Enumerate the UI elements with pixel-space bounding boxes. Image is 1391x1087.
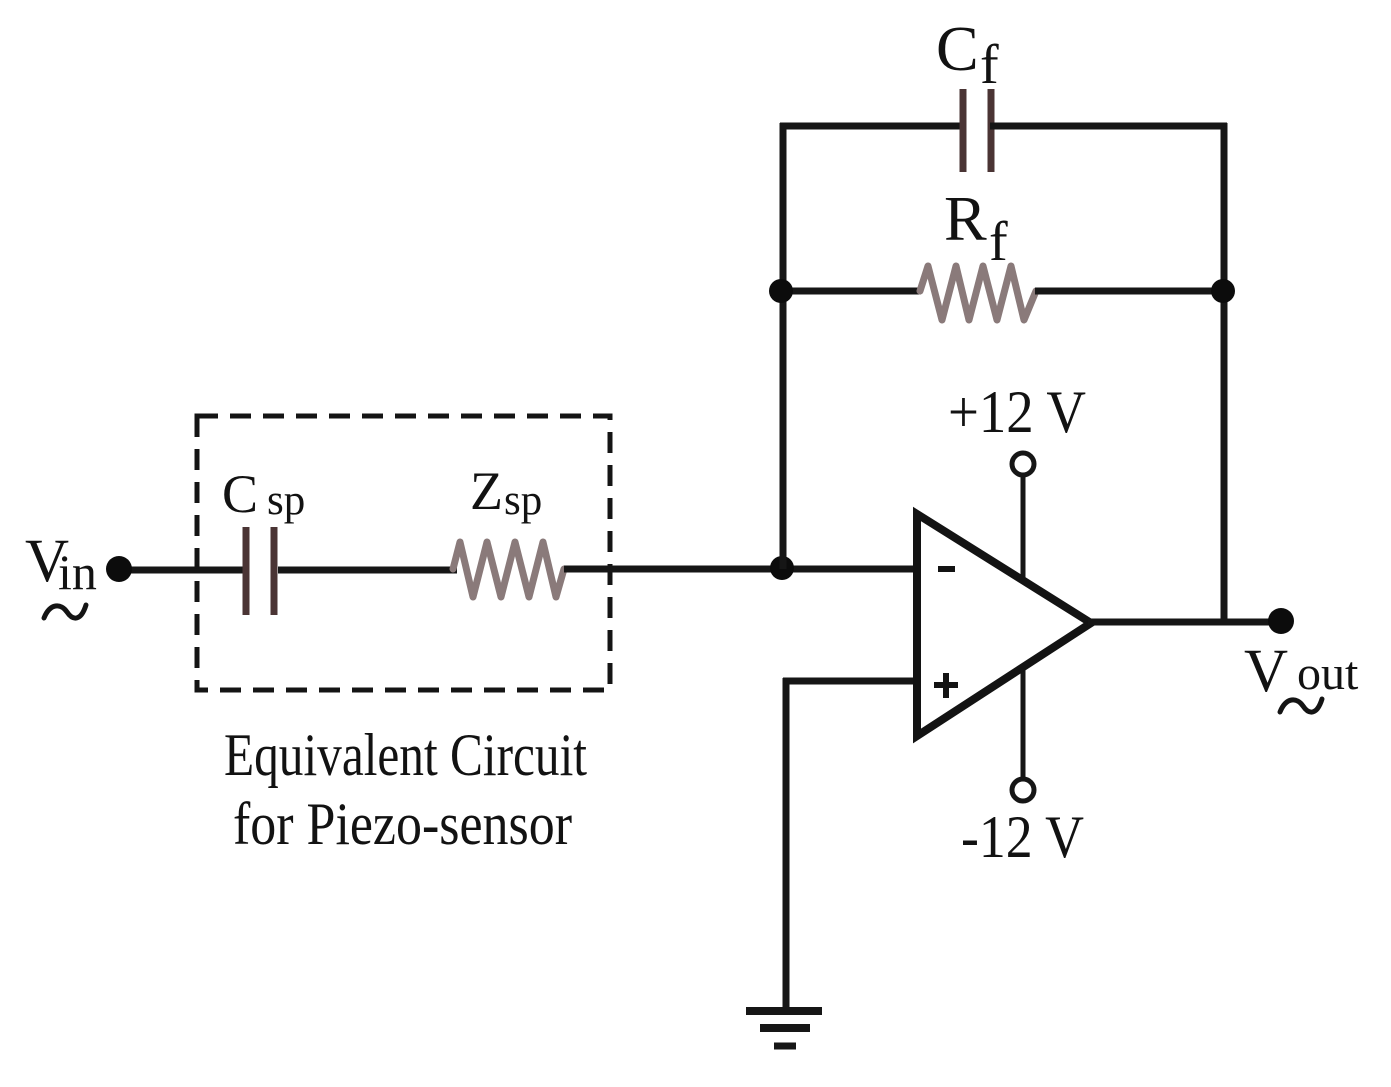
wire Rf row right segment [1035, 288, 1224, 295]
wire Rf row left segment [781, 288, 921, 295]
wire non-inverting input horizontal [783, 678, 920, 685]
power -12V terminal circle [1012, 779, 1034, 801]
svg-text:+12 V: +12 V [948, 379, 1086, 445]
svg-text:sp: sp [504, 477, 542, 524]
power pin -12V line [1021, 660, 1026, 778]
svg-text:V: V [1244, 638, 1288, 705]
node feedback left junction [769, 279, 793, 303]
label Csp [222, 464, 305, 524]
wire left feedback rail [780, 123, 787, 569]
label Cf [936, 13, 999, 96]
svg-text:C: C [936, 13, 979, 84]
resistor Rf [920, 266, 1036, 320]
wire from Zsp to inverting input of op-amp [564, 566, 920, 573]
resistor Zsp [453, 542, 564, 597]
wire between Csp and Zsp [278, 567, 457, 574]
label Zsp [470, 461, 542, 524]
svg-text:C: C [222, 464, 258, 524]
power +12V terminal circle [1012, 453, 1034, 475]
wire top feedback right segment [990, 123, 1227, 130]
svg-text:sp: sp [267, 477, 305, 524]
label Vout [1244, 638, 1359, 712]
capacitor Csp [246, 527, 274, 615]
svg-text:in: in [58, 544, 97, 600]
node feedback right junction [1211, 279, 1235, 303]
op-amp non-inverting input symbol + [934, 673, 958, 698]
wire op-amp output [1088, 619, 1275, 626]
svg-text:-12 V: -12 V [961, 804, 1084, 870]
svg-text:f: f [980, 34, 999, 96]
svg-text:out: out [1297, 647, 1359, 700]
wire right feedback rail [1221, 123, 1228, 622]
wire input from Vin terminal to Csp [124, 567, 244, 574]
svg-text:for Piezo-sensor: for Piezo-sensor [233, 791, 572, 857]
op-amp inverting input symbol - [938, 566, 955, 572]
svg-text:f: f [989, 211, 1008, 273]
ground [746, 1011, 822, 1046]
wire non-inverting down to ground [783, 678, 790, 1010]
node inverting input junction [770, 556, 794, 580]
label Vin [25, 528, 97, 618]
svg-text:R: R [944, 183, 987, 254]
node output terminal [1268, 608, 1294, 634]
op-amp U1 [917, 514, 1091, 736]
svg-text:Equivalent Circuit: Equivalent Circuit [224, 722, 587, 788]
svg-text:Z: Z [470, 461, 503, 521]
dashed box equivalent circuit for piezo-sensor [197, 416, 610, 690]
power pin +12V line [1021, 476, 1026, 585]
wire top feedback left segment [780, 123, 964, 130]
node Vin input terminal [106, 556, 132, 582]
capacitor Cf [963, 89, 991, 172]
label Rf [944, 183, 1008, 273]
